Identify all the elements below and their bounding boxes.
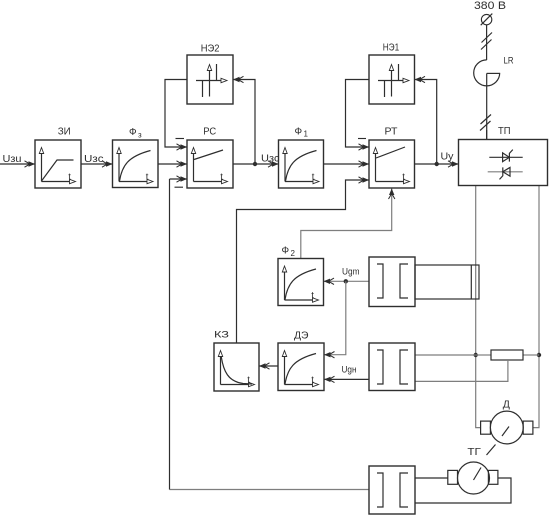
node label Uзс after PC: [261, 154, 280, 165]
wire resistor tap to DN sensor: [415, 360, 508, 381]
shaft between Д and ТГ: [487, 445, 496, 456]
label РТ: [385, 127, 398, 138]
wire terminal to reactor: [486, 25, 488, 60]
wire NE2 output down to PC top input: [165, 80, 187, 151]
wire DT sensor to F2 input with junction (node Ugm): [324, 278, 370, 284]
wire TG sensor to TG left brush: [415, 477, 448, 479]
svg-text:Ugm: Ugm: [342, 267, 360, 277]
svg-text:t: t: [220, 171, 223, 182]
block Ф3 (filter): [113, 140, 159, 188]
svg-text:Uу: Uу: [441, 152, 454, 163]
motor Д: [481, 411, 533, 444]
svg-text:t: t: [402, 171, 405, 182]
three-phase slash marks lower: [480, 115, 491, 131]
wire input to ZI with node Uзu: [0, 161, 35, 167]
label КЗ: [214, 330, 229, 341]
node label Ugн: [342, 365, 357, 375]
label ЗИ: [58, 127, 71, 138]
wire resistor to right junction: [523, 354, 539, 356]
svg-text:ТП: ТП: [498, 126, 511, 137]
block Ф2 (filter): [278, 259, 324, 306]
wire TP left output to motor left brush: [476, 186, 481, 428]
label ТГ: [467, 447, 481, 458]
svg-text:ДЭ: ДЭ: [294, 331, 309, 342]
terminal 380V (circle with slash): [481, 14, 493, 26]
block ДЭ (emf sensor element): [278, 343, 324, 391]
svg-text:Ф: Ф: [129, 127, 137, 138]
svg-text:LR: LR: [504, 56, 514, 67]
wire TG sensor to TG right brush: [415, 478, 511, 503]
wire ZI to F3 (node Uзс): [81, 161, 113, 167]
wire PT output to NE1 input (feedback up): [415, 76, 437, 164]
label НЭ2: [201, 43, 220, 54]
svg-text:Д: Д: [503, 399, 510, 411]
svg-text:t: t: [311, 290, 314, 301]
svg-text:t: t: [311, 374, 314, 385]
wire F1 to PT: [324, 161, 370, 167]
svg-text:Uзu: Uзu: [3, 154, 22, 165]
svg-text:РС: РС: [203, 127, 216, 138]
node label Uзu: [3, 154, 22, 165]
wire F3 to PC: [158, 161, 187, 167]
minus sign at PT top input: [358, 138, 366, 140]
reactor label LR: [504, 56, 514, 67]
block КЗ (compensating element): [214, 343, 259, 391]
minus sign at PC bottom input: [175, 186, 184, 188]
wire DN sensor to DE lower input (node Ugн): [324, 376, 369, 382]
label ДЭ: [294, 331, 309, 342]
svg-text:Ф: Ф: [295, 127, 303, 138]
svg-text:Uзc: Uзc: [261, 154, 280, 165]
svg-text:НЭ1: НЭ1: [383, 43, 400, 54]
node label Uу: [441, 152, 454, 163]
label Ф2: [282, 246, 296, 259]
reactor LR: [474, 60, 500, 140]
junction right power line: [537, 353, 541, 357]
svg-text:РТ: РТ: [385, 127, 398, 138]
wire PT to TP with junction (node Uу): [415, 161, 459, 167]
svg-text:ТГ: ТГ: [467, 447, 481, 458]
current sensor ДТ (isolation transformer): [369, 257, 415, 307]
svg-text:Ugн: Ugн: [342, 365, 357, 375]
svg-text:КЗ: КЗ: [214, 330, 229, 341]
svg-text:з: з: [138, 131, 142, 140]
minus sign at PC top input: [176, 138, 185, 140]
wire TP right output to motor right brush: [533, 186, 539, 428]
svg-text:ЗИ: ЗИ: [58, 127, 71, 138]
svg-text:380 В: 380 В: [474, 0, 506, 12]
junction left power line: [474, 353, 478, 357]
label Д: [503, 399, 510, 411]
label Ф3: [129, 127, 142, 140]
wire Ugm junction down to DE upper input: [324, 281, 346, 358]
svg-text:t: t: [146, 171, 149, 182]
wire left junction to resistor: [476, 354, 491, 356]
svg-text:НЭ2: НЭ2: [201, 43, 220, 54]
node label Ugm: [342, 267, 360, 277]
block НЭ1 (nonlinear limiter): [369, 55, 415, 104]
wire DN sensor to left power line: [415, 354, 476, 356]
voltage sensor ДН (isolation transformer): [369, 343, 415, 391]
block РТ (current controller): [369, 140, 415, 188]
current sensor primary winding on power line: [415, 265, 479, 299]
wire F2 output to PT bottom input: [301, 189, 395, 259]
svg-text:t: t: [68, 171, 71, 182]
tachogenerator sensor box (isolation transformer): [369, 466, 415, 514]
label РС: [203, 127, 216, 138]
label ТП: [498, 126, 511, 137]
node label Uзс: [84, 154, 104, 165]
wire KZ output to PT lower input: [237, 177, 370, 343]
block РС (speed controller): [187, 140, 233, 188]
wire TG sensor to PC bottom input (speed feedback): [170, 176, 370, 490]
three-phase slash marks upper: [481, 33, 492, 50]
label Ф1: [295, 127, 309, 139]
block ЗИ (intensity setter): [35, 140, 81, 188]
svg-text:2: 2: [291, 249, 296, 258]
svg-text:1: 1: [304, 130, 309, 139]
wire PC output to NE2 input (feedback up): [233, 76, 255, 164]
wire DE output to KZ input: [259, 363, 278, 369]
svg-text:Ф: Ф: [282, 246, 290, 257]
wire NE1 output down to PT top input: [346, 80, 370, 151]
wire PC to F1 with junction: [233, 161, 279, 167]
block Ф1 (filter): [279, 140, 324, 188]
block ТП (thyristor converter): [459, 130, 548, 186]
label НЭ1: [383, 43, 400, 54]
block НЭ2 (nonlinear limiter): [187, 55, 233, 104]
svg-text:Uзc: Uзc: [84, 154, 104, 165]
resistor divider: [491, 350, 523, 360]
svg-text:t: t: [312, 171, 315, 182]
supply label 380 В: [474, 0, 506, 12]
tachogenerator ТГ: [448, 462, 498, 494]
